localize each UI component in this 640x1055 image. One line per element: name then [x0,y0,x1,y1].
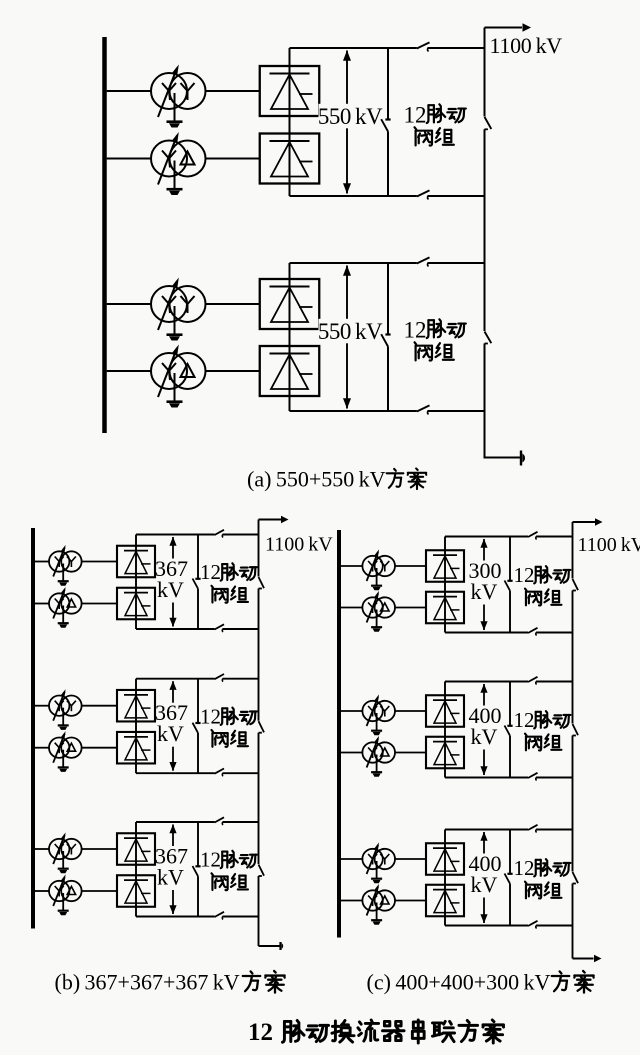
transformer T1(b) (YY) [49,545,82,577]
disconnect switch on top line lower (a) [417,257,430,266]
ground of T2(b) [58,606,69,628]
bottom connection line group 1 (c) [445,632,528,634]
wire busbar to T1(b) [35,561,49,563]
wire busbar to T4 [107,370,152,372]
transformer T3 (YY) [151,278,206,331]
HV pole bus (a) [484,28,486,117]
svg-text:(c) 400+400+300 kV: (c) 400+400+300 kV [367,970,551,995]
ground of T3(c) [371,713,382,735]
svg-text:12: 12 [248,1019,273,1046]
top connection line group 1 (c) [445,536,528,538]
svg-text:kV: kV [157,721,184,746]
transformer T2 (YD) [151,132,206,185]
valve series wire group 2 (c) [444,682,446,778]
550 kV dimension arrow lower (a) [343,265,351,409]
disconnect switch bypass group 1 (c) [505,581,513,591]
wire T2(c) to valve box [395,607,426,609]
top connection line group 2 (c) [445,681,528,683]
disconnect switch on top line group 3 (b) [215,817,225,825]
wire busbar to T2(b) [35,603,49,605]
svg-text:kV: kV [157,865,184,890]
label 550 kV lower (a) [318,319,383,344]
AC busbar (b) [31,528,35,929]
voltage dimension arrow group 3 (c) [480,832,487,924]
valve group box V1(b) [117,546,155,578]
label 550 kV upper (a) [318,104,383,129]
valve series wire lower group (a) [289,263,291,411]
title: 12 pulse converter series scheme [248,1019,504,1046]
disconnect switch on pole bus (b) [259,865,265,877]
disconnect switch on pole bus (b) [259,721,265,733]
disconnect switch on bottom line group 2 (b) [215,769,225,777]
disconnect switch bypass lower (a) [381,334,390,346]
bottom connection line group 2 (c) [445,777,528,779]
disconnect switch on bottom line lower (a) [417,405,430,414]
svg-text:(a) 550+550 kV: (a) 550+550 kV [247,467,386,492]
bypass switch line upper group (a) [387,48,389,120]
1100 kV line arrow (a) [485,23,532,31]
valve group box V1 [260,66,320,116]
disconnect switch on pole bus (c) [573,579,579,591]
wire busbar to T1 [107,90,152,92]
transformer T5(b) (YY) [49,832,82,864]
svg-text:kV: kV [157,577,184,602]
disconnect switch on pole bus (c) [573,724,579,736]
bottom connection line group 2 (b) [136,772,215,774]
bottom connection line upper group (a) [290,195,417,197]
HV pole bus (c) [572,522,574,579]
label 367 kV group 1 (b) [155,556,188,602]
transformer T2(c) (YD) [362,591,395,623]
AC busbar (c) [337,530,341,938]
disconnect switch on pole bus lower (a) [485,332,492,344]
valve group box V3 [260,279,320,329]
wire busbar to T3(b) [35,705,49,707]
bottom connection line group 3 (b) [136,916,215,918]
transformer T5(c) (YY) [362,842,395,874]
valve group box V3(b) [117,690,155,722]
wire busbar to T2(c) [341,607,363,609]
wire T1(b) to valve box [82,561,117,563]
label 12-pulse valve group lower (a) [404,317,466,360]
caption (c) [367,970,594,995]
top connection line group 1 (b) [136,534,215,536]
disconnect switch on pole bus (b) [259,577,265,589]
valve series wire group 1 (c) [444,537,446,633]
ground of T2(c) [371,610,382,632]
ground of T1 [167,93,183,128]
wire T4(c) to valve box [395,752,426,754]
ground of T4(c) [371,755,382,777]
bypass switch line group 2 (c) [509,682,511,726]
top connection line upper group (a) [290,47,417,49]
bypass switch line lower group (a) [387,263,389,335]
wire busbar to T6(c) [341,900,363,902]
svg-text:550 kV: 550 kV [318,319,383,344]
valve series wire group 2 (b) [135,679,137,774]
ground of T4(b) [58,750,69,772]
1100 kV line arrow (c) [573,518,603,526]
bypass switch line group 2 (b) [197,679,199,723]
wire busbar to T5(b) [35,848,49,850]
transformer T3(c) (YY) [362,694,395,726]
label 12-pulse valve group group 3 (c) [514,856,571,899]
ground of T3 [167,306,183,341]
wire T1 to valve box [205,90,260,92]
disconnect switch on top line upper (a) [417,42,430,51]
caption (b) [55,970,285,995]
bypass switch line group 1 (b) [197,535,199,579]
svg-text:12: 12 [404,317,427,342]
disconnect switch bypass group 2 (b) [193,723,201,733]
svg-text:kV: kV [471,579,498,604]
svg-text:12: 12 [200,560,221,584]
svg-text:12: 12 [200,848,221,872]
wire busbar to T6(b) [35,890,49,892]
svg-text:1100 kV: 1100 kV [265,534,333,556]
label 12-pulse valve group group 2 (c) [514,708,571,751]
disconnect switch on bottom line group 3 (b) [215,912,225,920]
ground connection (a) [485,457,521,459]
disconnect switch bypass group 2 (c) [505,726,513,736]
voltage dimension arrow group 2 (b) [169,681,176,771]
bottom terminal (b) [259,942,284,950]
valve group box V3(c) [426,695,464,727]
disconnect switch on pole bus (c) [573,872,579,884]
AC busbar (a) [102,37,107,433]
1100 kV line arrow (b) [259,516,289,524]
wire busbar to T2 [107,158,152,160]
wire T2(b) to valve box [82,603,117,605]
wire busbar to T4(b) [35,747,49,749]
voltage dimension arrow group 2 (c) [480,684,487,776]
disconnect switch on pole bus upper (a) [485,117,492,129]
wire T3(c) to valve box [395,710,426,712]
valve series wire upper group (a) [289,48,291,196]
transformer T1(c) (YY) [362,549,395,581]
disconnect switch on top line group 1 (b) [215,530,225,538]
bottom connection line group 3 (c) [445,925,528,927]
label 12-pulse valve group group 2 (b) [200,704,257,746]
wire busbar to T1(c) [341,565,363,567]
svg-text:kV: kV [471,724,498,749]
label 12-pulse valve group upper (a) [404,102,466,145]
svg-text:550 kV: 550 kV [318,104,383,129]
wire busbar to T5(c) [341,858,363,860]
valve series wire group 3 (c) [444,830,446,926]
valve group box V2 [260,134,320,184]
top connection line lower group (a) [290,262,417,264]
transformer T4 (YD) [151,345,206,398]
label 367 kV group 3 (b) [155,844,188,890]
bottom connection line lower group (a) [290,410,417,412]
transformer T3(b) (YY) [49,689,82,721]
transformer T6(c) (YD) [362,884,395,916]
wire T4 to valve box [205,370,260,372]
ground of T5(c) [371,861,382,883]
disconnect switch bypass group 3 (c) [505,874,513,884]
disconnect switch on bottom line group 1 (b) [215,624,225,632]
valve group box V2(c) [426,592,464,624]
wire T6(b) to valve box [82,890,117,892]
svg-text:12: 12 [404,102,427,127]
bottom connection line group 1 (b) [136,628,215,630]
earth electrode symbol (a) [521,451,525,466]
disconnect switch bypass group 1 (b) [193,579,201,589]
label 12-pulse valve group group 3 (b) [200,848,257,891]
transformer T4(b) (YD) [49,731,82,763]
top connection line group 3 (b) [136,821,215,823]
transformer T1 (YY) [151,65,206,118]
valve group box V1(c) [426,550,464,582]
valve group box V4(c) [426,737,464,769]
bypass switch line group 3 (b) [197,822,199,866]
label 12-pulse valve group group 1 (b) [200,560,257,603]
transformer T4(c) (YD) [362,736,395,768]
valve group box V6(c) [426,885,464,917]
ground of T2 [167,161,183,196]
bypass switch line group 3 (c) [509,830,511,874]
svg-text:1100 kV: 1100 kV [490,33,563,58]
transformer T6(b) (YD) [49,874,82,906]
top connection line group 3 (c) [445,829,528,831]
valve group box V2(b) [117,588,155,620]
wire T2 to valve box [205,158,260,160]
wire T5(c) to valve box [395,858,426,860]
voltage dimension arrow group 3 (b) [169,824,176,914]
valve group box V4 [260,346,320,396]
voltage dimension arrow group 1 (b) [169,537,176,627]
disconnect switch on top line group 2 (b) [215,674,225,682]
disconnect switch on top line group 3 (c) [528,825,538,833]
label 12-pulse valve group group 1 (c) [514,563,571,606]
valve series wire group 1 (b) [135,535,137,630]
valve series wire group 3 (b) [135,822,137,917]
svg-text:12: 12 [514,708,535,732]
valve group box V4(b) [117,732,155,764]
ground of T6(b) [58,893,69,915]
svg-text:12: 12 [200,704,221,728]
label 367 kV group 2 (b) [155,700,188,746]
HV pole bus (b) [258,520,260,577]
ground of T5(b) [58,851,69,873]
svg-text:12: 12 [514,856,535,880]
valve group box V5(c) [426,843,464,875]
valve group box V6(b) [117,875,155,907]
disconnect switch on bottom line group 3 (c) [528,921,538,929]
wire T6(c) to valve box [395,900,426,902]
wire T4(b) to valve box [82,747,117,749]
disconnect switch bypass upper (a) [381,119,390,131]
disconnect switch bypass group 3 (b) [193,866,201,876]
svg-text:(b) 367+367+367 kV: (b) 367+367+367 kV [55,970,240,995]
wire busbar to T4(c) [341,752,363,754]
svg-text:kV: kV [471,872,498,897]
wire busbar to T3(c) [341,710,363,712]
bypass switch line group 1 (c) [509,537,511,581]
caption (a) [247,467,426,492]
wire T3(b) to valve box [82,705,117,707]
label 300 kV group 1 (c) [469,558,502,604]
wire T5(b) to valve box [82,848,117,850]
ground of T4 [167,373,183,408]
wire T3 to valve box [205,303,260,305]
wire T1(c) to valve box [395,565,426,567]
ground of T1(b) [58,564,69,586]
svg-text:1100 kV: 1100 kV [578,534,640,556]
label 400 kV group 2 (c) [469,703,502,749]
550 kV dimension arrow upper (a) [343,50,351,194]
bottom terminal (c) [573,955,602,963]
wire busbar to T3 [107,303,152,305]
label 400 kV group 3 (c) [469,851,502,897]
ground of T6(c) [371,903,382,925]
valve group box V5(b) [117,833,155,865]
ground of T3(b) [58,708,69,730]
voltage dimension arrow group 1 (c) [480,539,487,631]
ground of T1(c) [371,568,382,590]
disconnect switch on top line group 2 (c) [528,677,538,685]
disconnect switch on bottom line group 2 (c) [528,773,538,781]
disconnect switch on bottom line group 1 (c) [528,628,538,636]
disconnect switch on top line group 1 (c) [528,532,538,540]
disconnect switch on bottom line upper (a) [417,190,430,199]
top connection line group 2 (b) [136,678,215,680]
transformer T2(b) (YD) [49,587,82,619]
svg-text:12: 12 [514,563,535,587]
